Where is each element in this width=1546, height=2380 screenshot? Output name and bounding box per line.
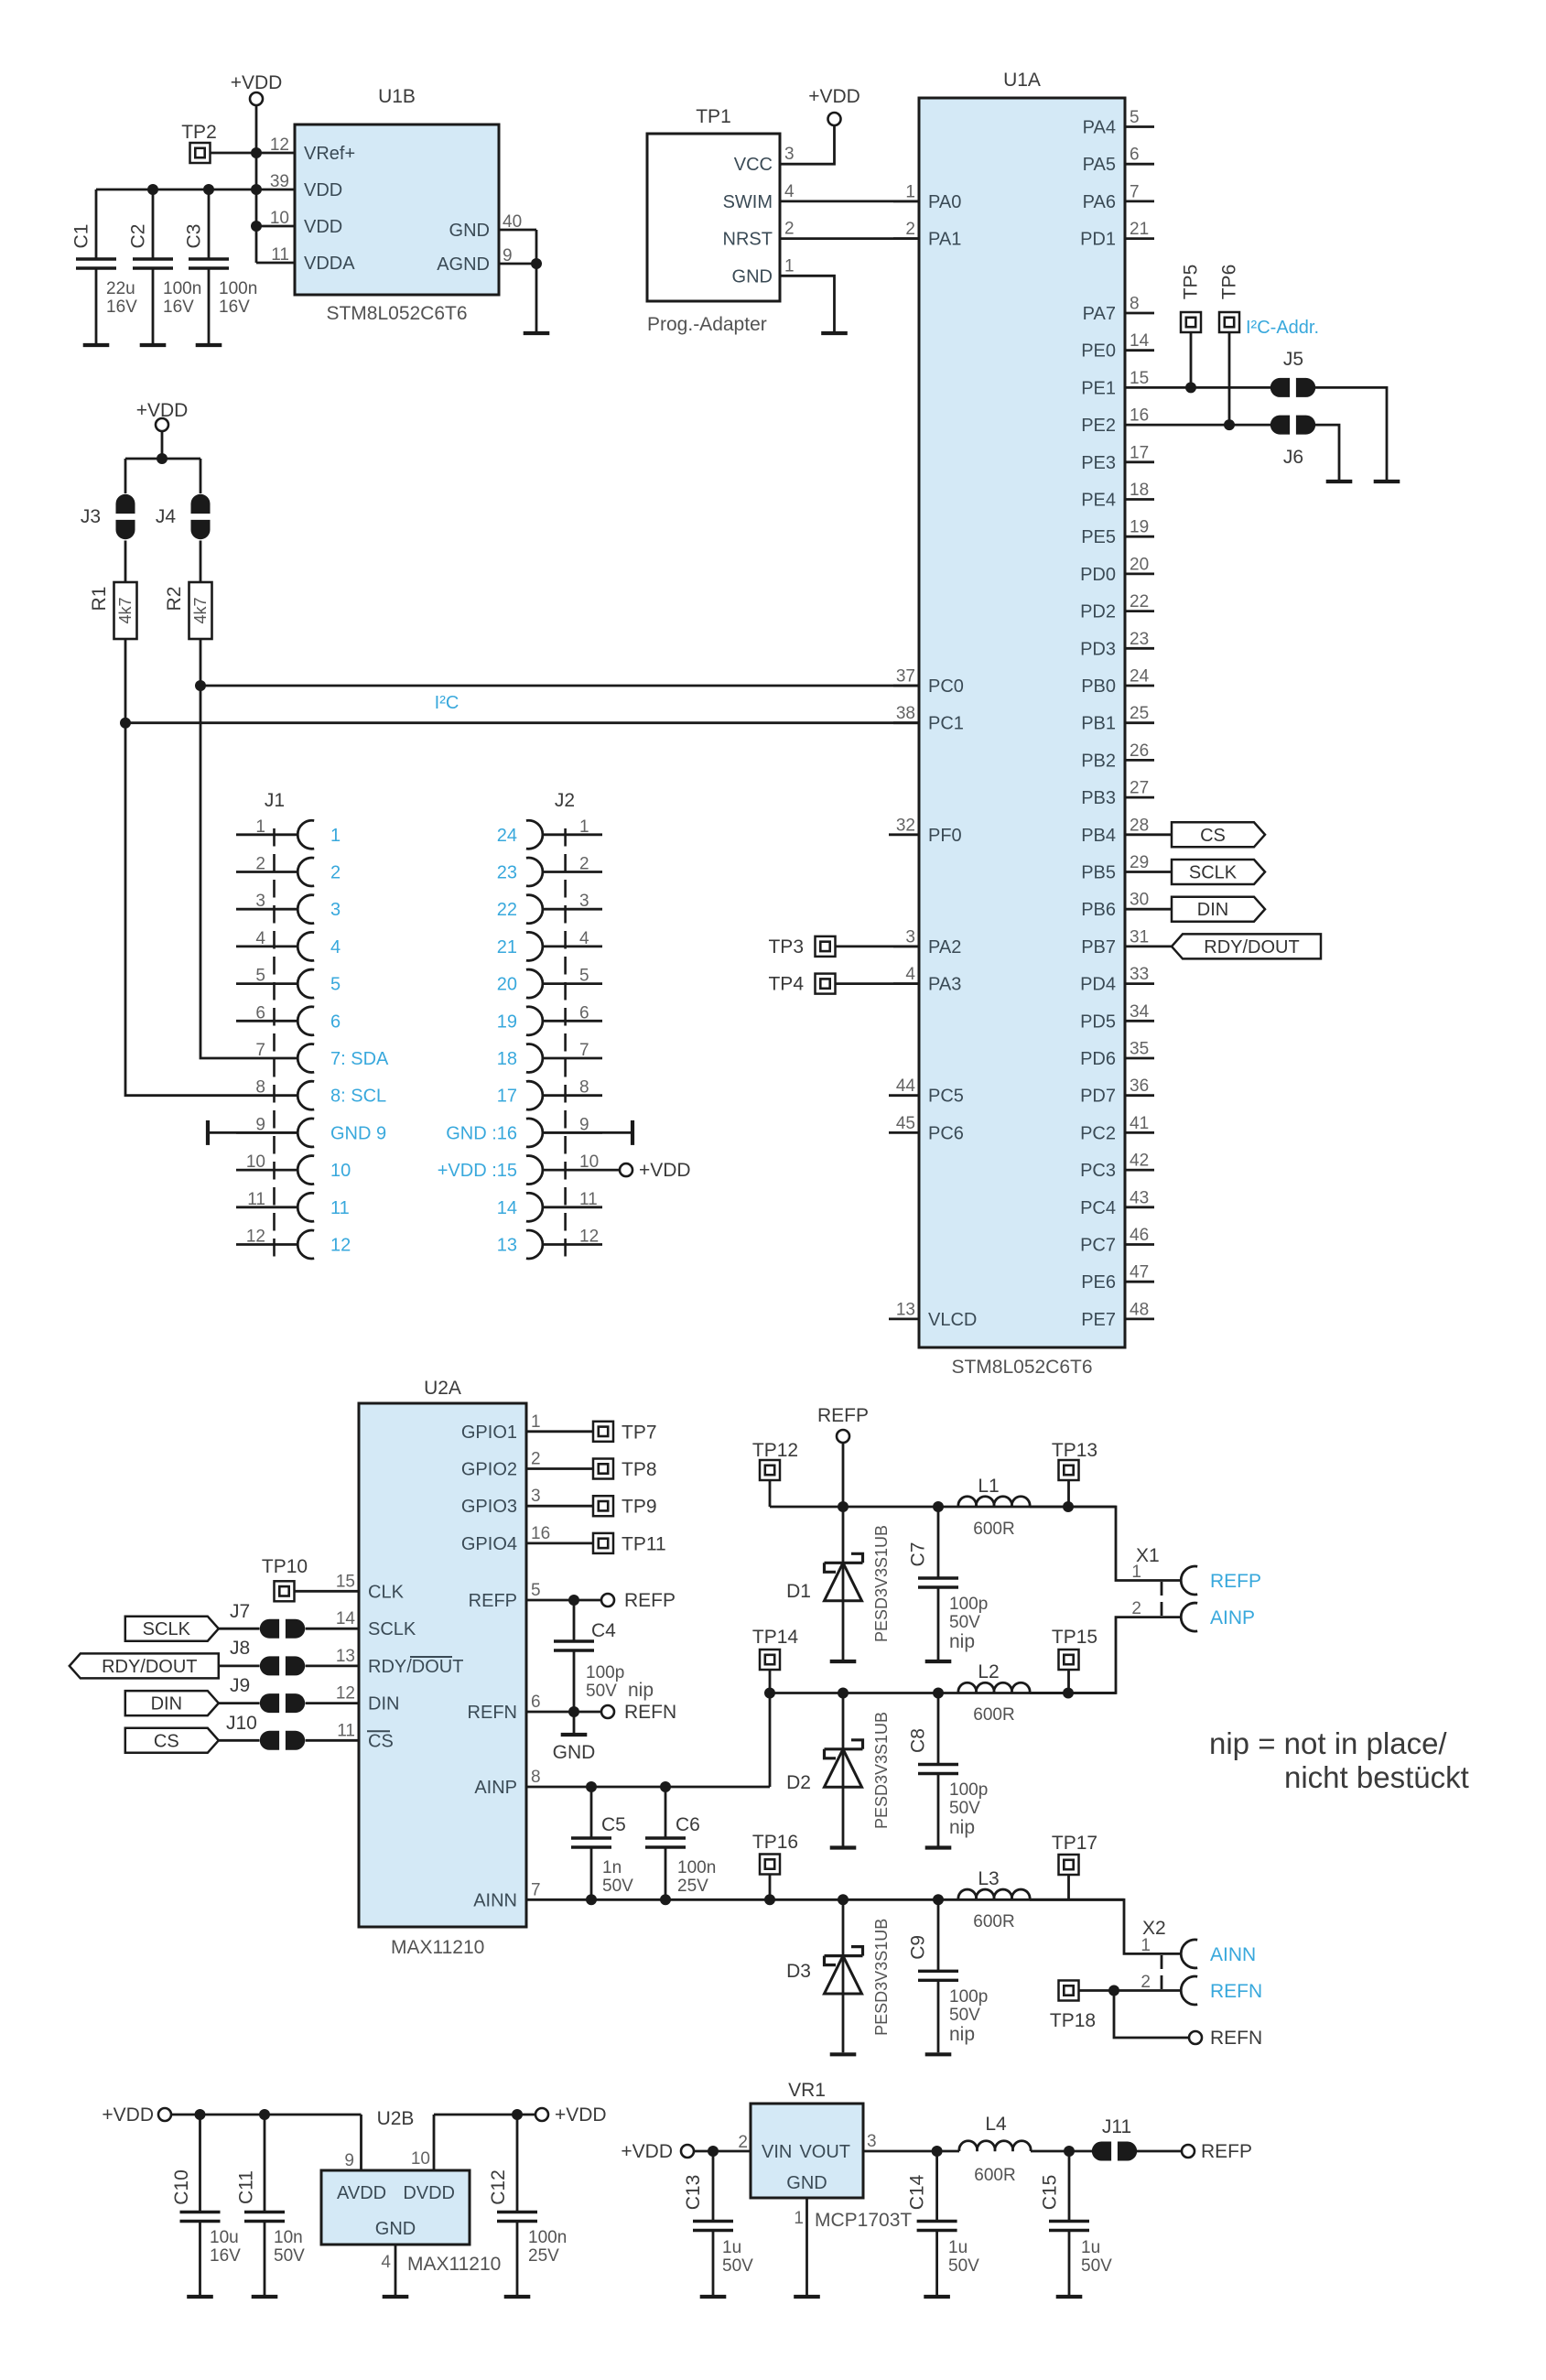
svg-text:19: 19 bbox=[497, 1011, 517, 1032]
svg-text:100n: 100n bbox=[677, 1858, 716, 1877]
ground (D1) bbox=[830, 1660, 857, 1663]
net label I2C bbox=[435, 693, 459, 713]
svg-text:38: 38 bbox=[896, 704, 915, 723]
svg-text:11: 11 bbox=[247, 1190, 265, 1209]
svg-text:8: 8 bbox=[1130, 295, 1140, 314]
svg-text:PE2: PE2 bbox=[1081, 416, 1116, 436]
wire TP1 GND down bbox=[806, 276, 835, 331]
svg-text:10u: 10u bbox=[210, 2228, 239, 2247]
svg-text:50V: 50V bbox=[274, 2246, 305, 2266]
junction dots on U1B supply rail bbox=[147, 147, 262, 232]
J1 pin 8 bbox=[255, 1078, 386, 1110]
svg-text:PB3: PB3 bbox=[1081, 788, 1116, 808]
svg-text:100n: 100n bbox=[163, 279, 201, 298]
inductor L2 600R bbox=[958, 1661, 1030, 1725]
svg-text:GPIO4: GPIO4 bbox=[461, 1534, 517, 1554]
svg-text:5: 5 bbox=[330, 975, 341, 995]
svg-text:J3: J3 bbox=[81, 506, 101, 527]
U2B pin 9 AVDD lead bbox=[344, 2151, 354, 2170]
svg-text:C6: C6 bbox=[676, 1814, 700, 1835]
svg-text:C15: C15 bbox=[1040, 2175, 1061, 2211]
wire TP18 to X2 pin 2 bbox=[1079, 1985, 1182, 1996]
svg-text:J10: J10 bbox=[226, 1713, 257, 1734]
capacitor C8 100p 50V nip bbox=[908, 1693, 989, 1846]
svg-text:REFP: REFP bbox=[1201, 2141, 1252, 2162]
IC U1A STM8L052C6T6 block bbox=[919, 70, 1125, 1378]
U1A pin 6 PA5 bbox=[1083, 146, 1154, 176]
svg-text:AINP: AINP bbox=[1210, 1607, 1255, 1628]
svg-text:REFN: REFN bbox=[468, 1703, 517, 1723]
svg-text:C14: C14 bbox=[907, 2174, 928, 2210]
svg-text:7: SDA: 7: SDA bbox=[330, 1049, 389, 1069]
ground (C11) bbox=[252, 2295, 278, 2299]
svg-text:600R: 600R bbox=[973, 1520, 1014, 1539]
svg-text:AINN: AINN bbox=[473, 1890, 517, 1910]
ground (TP1) bbox=[821, 331, 848, 335]
inductor L4 600R bbox=[959, 2114, 1031, 2185]
jumper J10 bbox=[226, 1713, 305, 1750]
J2 pin 3 bbox=[497, 892, 602, 924]
svg-text:AINP: AINP bbox=[474, 1778, 517, 1798]
svg-text:1n: 1n bbox=[602, 1858, 622, 1877]
svg-text:12: 12 bbox=[246, 1228, 265, 1247]
wire DIN flag to J9 to U2A bbox=[219, 1702, 359, 1704]
svg-text:20: 20 bbox=[497, 975, 517, 995]
svg-text:TP13: TP13 bbox=[1052, 1440, 1097, 1461]
svg-text:PC2: PC2 bbox=[1080, 1123, 1116, 1143]
svg-text:J8: J8 bbox=[230, 1638, 250, 1659]
svg-text:50V: 50V bbox=[722, 2256, 753, 2276]
svg-text:CS: CS bbox=[1200, 826, 1226, 846]
wire L2 to X1 pin 2 bbox=[1030, 1617, 1181, 1693]
svg-text:GND: GND bbox=[449, 221, 490, 241]
J1 pin 7 bbox=[255, 1041, 389, 1073]
svg-text:2: 2 bbox=[1141, 1973, 1151, 1992]
svg-text:35: 35 bbox=[1130, 1040, 1149, 1059]
svg-text:PESD3V3S1UB: PESD3V3S1UB bbox=[872, 1919, 891, 2036]
svg-text:VDD: VDD bbox=[304, 217, 342, 237]
svg-text:4: 4 bbox=[330, 937, 341, 957]
svg-text:TP2: TP2 bbox=[181, 122, 217, 143]
svg-text:3: 3 bbox=[867, 2132, 877, 2151]
svg-text:L1: L1 bbox=[978, 1476, 999, 1497]
jumper J9 bbox=[230, 1675, 305, 1713]
svg-text:36: 36 bbox=[1130, 1076, 1149, 1096]
svg-text:5: 5 bbox=[579, 967, 589, 986]
svg-text:PD5: PD5 bbox=[1080, 1011, 1116, 1032]
U1A pin 24 PB0 bbox=[1081, 667, 1154, 698]
svg-text:1u: 1u bbox=[948, 2238, 968, 2257]
net label REFP (output) bbox=[1182, 2141, 1252, 2162]
svg-text:PD0: PD0 bbox=[1080, 565, 1116, 585]
svg-text:PA5: PA5 bbox=[1083, 155, 1116, 175]
J2 pin 2 bbox=[497, 855, 602, 887]
U2A pin 11 CS bbox=[337, 1721, 394, 1751]
svg-text:nip: nip bbox=[949, 1631, 975, 1652]
net label REFN (output) bbox=[1189, 2028, 1262, 2049]
U1A pin 35 PD6 bbox=[1080, 1040, 1154, 1070]
svg-text:C12: C12 bbox=[488, 2169, 509, 2205]
svg-text:23: 23 bbox=[1130, 630, 1149, 649]
ground (C1) bbox=[83, 343, 110, 347]
svg-text:26: 26 bbox=[1130, 741, 1149, 761]
wire PE2 to jumper J6 bbox=[1154, 332, 1270, 430]
svg-text:STM8L052C6T6: STM8L052C6T6 bbox=[326, 303, 467, 324]
test point TP9 bbox=[593, 1496, 657, 1518]
U1A pin 44 PC5 bbox=[889, 1076, 964, 1107]
svg-text:J7: J7 bbox=[230, 1601, 250, 1622]
svg-text:34: 34 bbox=[1130, 1002, 1150, 1022]
svg-text:PB6: PB6 bbox=[1081, 900, 1116, 920]
svg-text:J2: J2 bbox=[555, 790, 575, 811]
svg-text:7: 7 bbox=[579, 1041, 589, 1060]
svg-text:22u: 22u bbox=[106, 279, 135, 298]
svg-text:4: 4 bbox=[905, 965, 915, 984]
svg-text:DIN: DIN bbox=[368, 1694, 399, 1715]
ground (C2) bbox=[140, 343, 167, 347]
svg-text:4: 4 bbox=[255, 929, 265, 948]
svg-text:41: 41 bbox=[1130, 1114, 1149, 1133]
svg-text:CS: CS bbox=[368, 1731, 394, 1751]
svg-text:I²C: I²C bbox=[435, 693, 459, 713]
ground (U2B) bbox=[383, 2295, 409, 2299]
ground (D3) bbox=[830, 2052, 857, 2056]
U1A pin 19 PE5 bbox=[1081, 518, 1154, 548]
svg-text:C3: C3 bbox=[184, 224, 205, 249]
svg-text:RDY/DOUT: RDY/DOUT bbox=[102, 1657, 197, 1677]
U1A pin 33 PD4 bbox=[1080, 965, 1154, 995]
svg-text:PB1: PB1 bbox=[1081, 714, 1116, 734]
VR1 pin 3 lead / wire VOUT to L4 bbox=[863, 2132, 959, 2157]
svg-text:PE4: PE4 bbox=[1081, 491, 1116, 511]
svg-text:13: 13 bbox=[896, 1300, 915, 1319]
U1A pin 23 PD3 bbox=[1080, 630, 1154, 660]
J1 pin 1 bbox=[236, 817, 341, 849]
capacitor C3 100n 16V bbox=[184, 189, 258, 345]
U2B pin 4 GND lead bbox=[381, 2245, 395, 2295]
net flag CS (to J10) bbox=[125, 1728, 219, 1753]
U1A pin 47 PE6 bbox=[1081, 1263, 1154, 1293]
test point TP3 bbox=[768, 936, 835, 957]
net flag DIN (from PB6) bbox=[1154, 897, 1265, 922]
svg-text:NRST: NRST bbox=[723, 230, 773, 250]
svg-text:16: 16 bbox=[531, 1524, 550, 1543]
U2A pin 8 AINP bbox=[474, 1768, 540, 1798]
U1A pin 26 PB2 bbox=[1081, 741, 1154, 772]
test point TP5 bbox=[1181, 265, 1202, 332]
U1A pin 25 PB1 bbox=[1081, 704, 1154, 734]
svg-text:PA6: PA6 bbox=[1083, 192, 1116, 212]
svg-text:C7: C7 bbox=[908, 1542, 929, 1567]
svg-text:PB7: PB7 bbox=[1081, 937, 1116, 957]
svg-text:14: 14 bbox=[336, 1609, 356, 1628]
capacitor C9 100p 50V nip bbox=[908, 1899, 989, 2052]
svg-text:PA0: PA0 bbox=[928, 192, 961, 212]
test point TP10 bbox=[262, 1556, 308, 1601]
IC U2B MAX11210 block bbox=[321, 2108, 501, 2275]
svg-text:L4: L4 bbox=[985, 2114, 1007, 2135]
svg-text:R2: R2 bbox=[164, 587, 185, 611]
U1A pin 15 PE1 bbox=[1081, 369, 1154, 399]
wire +VDD split to J3/J4 bbox=[125, 431, 200, 493]
ground (C12) bbox=[504, 2295, 531, 2299]
svg-text:8: 8 bbox=[579, 1078, 589, 1098]
ground (C7) bbox=[925, 1660, 952, 1663]
svg-text:PC3: PC3 bbox=[1080, 1161, 1116, 1181]
TP1 pin 2 NRST bbox=[723, 220, 806, 250]
svg-text:C4: C4 bbox=[591, 1620, 616, 1641]
svg-text:11: 11 bbox=[337, 1721, 355, 1740]
svg-text:600R: 600R bbox=[973, 1912, 1014, 1931]
wire GPIO4 to TP11 bbox=[526, 1542, 593, 1545]
wire TP1 VCC to +VDD bbox=[806, 125, 835, 164]
svg-text:PF0: PF0 bbox=[928, 826, 962, 846]
svg-text:PE7: PE7 bbox=[1081, 1310, 1116, 1330]
svg-text:C9: C9 bbox=[908, 1935, 929, 1960]
svg-text:nicht bestückt: nicht bestückt bbox=[1284, 1760, 1469, 1794]
svg-text:PD7: PD7 bbox=[1080, 1087, 1116, 1107]
svg-text:PB5: PB5 bbox=[1081, 863, 1116, 883]
ground (C10) bbox=[187, 2295, 213, 2299]
svg-text:10n: 10n bbox=[274, 2228, 303, 2247]
J2 pin 10 bbox=[438, 1152, 599, 1185]
U1A pin 16 PE2 bbox=[1081, 406, 1154, 437]
J1 pin 10 bbox=[236, 1152, 351, 1185]
svg-text:16: 16 bbox=[1130, 406, 1149, 426]
svg-text:2: 2 bbox=[738, 2133, 748, 2152]
J2 pin 12 bbox=[497, 1228, 602, 1260]
ground (D2) bbox=[830, 1845, 857, 1849]
J2 pin 4 bbox=[497, 929, 602, 961]
svg-text:PESD3V3S1UB: PESD3V3S1UB bbox=[872, 1525, 891, 1642]
U2A pin 7 AINN bbox=[473, 1880, 540, 1910]
svg-text:PA1: PA1 bbox=[928, 230, 961, 250]
J1 body dashed line bbox=[273, 828, 276, 1259]
svg-text:1: 1 bbox=[1141, 1936, 1151, 1955]
test point TP18 bbox=[1050, 1981, 1096, 2032]
svg-text:TP17: TP17 bbox=[1052, 1833, 1097, 1854]
ground (U1B) bbox=[524, 331, 550, 335]
svg-text:RDY/DOUT: RDY/DOUT bbox=[1204, 937, 1299, 957]
svg-text:nip: nip bbox=[628, 1680, 654, 1701]
U2A pin 1 GPIO1 bbox=[461, 1412, 541, 1443]
U1A pin 2 PA1 bbox=[893, 220, 961, 250]
svg-text:VDD: VDD bbox=[304, 180, 342, 200]
svg-text:45: 45 bbox=[896, 1114, 915, 1133]
U1B pin 39 VDD bbox=[256, 172, 342, 200]
U1A pin 21 PD1 bbox=[1080, 220, 1154, 250]
svg-text:PESD3V3S1UB: PESD3V3S1UB bbox=[872, 1712, 891, 1829]
svg-text:7: 7 bbox=[255, 1041, 265, 1060]
wire SCL bus to U1A PC1 bbox=[120, 718, 919, 729]
svg-text:5: 5 bbox=[531, 1581, 541, 1600]
wire TP4 to PA3 bbox=[836, 982, 920, 985]
svg-text:25: 25 bbox=[1130, 704, 1149, 723]
net flag DIN (to J9) bbox=[125, 1691, 219, 1715]
svg-text:46: 46 bbox=[1130, 1226, 1149, 1245]
svg-text:4: 4 bbox=[579, 929, 589, 948]
jumper J3 bbox=[81, 494, 135, 539]
U1B pin 11 VDDA bbox=[256, 245, 355, 274]
ground (C3) bbox=[196, 343, 222, 347]
svg-text:16V: 16V bbox=[163, 297, 194, 317]
svg-text:50V: 50V bbox=[602, 1877, 633, 1896]
J2 pin 6 bbox=[497, 1003, 602, 1035]
svg-text:14: 14 bbox=[497, 1198, 517, 1218]
TP1 pin 3 VCC bbox=[734, 145, 806, 175]
U2A pin 16 GPIO4 bbox=[461, 1524, 550, 1554]
capacitor C2 100n 16V bbox=[128, 189, 202, 345]
svg-text:6: 6 bbox=[255, 1003, 265, 1022]
net label I2C-Addr. bbox=[1246, 318, 1319, 338]
svg-text:18: 18 bbox=[1130, 481, 1149, 500]
svg-text:600R: 600R bbox=[974, 2166, 1015, 2185]
svg-text:6: 6 bbox=[531, 1693, 541, 1712]
svg-text:12: 12 bbox=[330, 1236, 351, 1256]
net label AINN (X2-1) bbox=[1210, 1944, 1256, 1965]
svg-text:VRef+: VRef+ bbox=[304, 144, 355, 164]
svg-text:PA2: PA2 bbox=[928, 937, 961, 957]
resistor R1 4k7 bbox=[89, 582, 137, 639]
svg-text:4: 4 bbox=[381, 2253, 391, 2272]
svg-text:15: 15 bbox=[336, 1572, 355, 1591]
U2A pin 15 CLK bbox=[336, 1572, 405, 1602]
wire +VDD to VIN bbox=[694, 2146, 751, 2157]
diode D2 PESD3V3S1UB bbox=[786, 1693, 891, 1846]
svg-text:+VDD: +VDD bbox=[639, 1160, 691, 1181]
svg-text:31: 31 bbox=[1130, 927, 1149, 947]
wire J5 to ground bbox=[1315, 387, 1387, 480]
svg-text:2: 2 bbox=[905, 220, 915, 239]
svg-text:9: 9 bbox=[503, 246, 513, 265]
svg-text:D1: D1 bbox=[786, 1581, 811, 1602]
capacitor C12 100n 25V bbox=[488, 2115, 567, 2295]
U1A pin 4 PA3 bbox=[893, 965, 961, 995]
wire SDA bus to U1A PC0 bbox=[195, 680, 919, 691]
U2A pin 6 REFN bbox=[468, 1693, 541, 1723]
U1A pin 34 PD5 bbox=[1080, 1002, 1154, 1033]
U2A pin 12 DIN bbox=[336, 1684, 400, 1715]
U1A pin 31 PB7 bbox=[1081, 927, 1154, 957]
ground (C14) bbox=[924, 2295, 950, 2299]
test point TP6 bbox=[1219, 265, 1240, 332]
svg-text:TP18: TP18 bbox=[1050, 2010, 1096, 2031]
U2B pin 10 DVDD lead bbox=[411, 2109, 535, 2170]
svg-text:2: 2 bbox=[255, 855, 265, 874]
power +VDD (VR1 input) bbox=[621, 2141, 694, 2162]
ground (C9) bbox=[925, 2052, 952, 2056]
svg-text:PE1: PE1 bbox=[1081, 378, 1116, 398]
svg-text:+VDD: +VDD bbox=[808, 86, 860, 107]
svg-text:PD4: PD4 bbox=[1080, 975, 1116, 995]
svg-text:TP6: TP6 bbox=[1219, 265, 1240, 300]
svg-text:22: 22 bbox=[1130, 592, 1149, 611]
svg-text:1u: 1u bbox=[722, 2238, 741, 2257]
svg-text:3: 3 bbox=[255, 892, 265, 911]
svg-text:12: 12 bbox=[270, 135, 289, 155]
svg-text:GND :16: GND :16 bbox=[446, 1123, 517, 1143]
X2 pin 2 contact bbox=[1141, 1973, 1197, 2005]
svg-text:2: 2 bbox=[1131, 1599, 1141, 1618]
svg-text:GND: GND bbox=[732, 266, 773, 287]
ground (J2 pin 9) bbox=[543, 1120, 632, 1145]
U1A pin 5 PA4 bbox=[1083, 108, 1154, 138]
capacitor C11 10n 50V bbox=[236, 2115, 306, 2295]
svg-text:33: 33 bbox=[1130, 965, 1149, 984]
U1B pin 12 VRef+ bbox=[256, 135, 355, 164]
J2 pin 5 bbox=[497, 967, 602, 999]
svg-text:23: 23 bbox=[497, 863, 517, 883]
U2A pin 13 RDY/DOUT bbox=[336, 1647, 464, 1677]
svg-text:42: 42 bbox=[1130, 1152, 1149, 1171]
svg-text:U1A: U1A bbox=[1003, 70, 1041, 91]
svg-text:47: 47 bbox=[1130, 1263, 1149, 1282]
U1A pin 27 PB3 bbox=[1081, 779, 1154, 809]
svg-text:GND 9: GND 9 bbox=[330, 1123, 386, 1143]
svg-text:VOUT: VOUT bbox=[799, 2142, 850, 2162]
J1 pin 3 bbox=[236, 892, 341, 923]
svg-text:VR1: VR1 bbox=[788, 2080, 826, 2101]
U1A pin 7 PA6 bbox=[1083, 182, 1154, 212]
J1 pin 6 bbox=[236, 1003, 341, 1034]
wire REFN to ground bbox=[573, 1712, 576, 1733]
svg-text:TP1: TP1 bbox=[696, 106, 731, 127]
net label REFP (input) bbox=[817, 1405, 869, 1443]
U1A pin 43 PC4 bbox=[1080, 1188, 1154, 1218]
connector X2 bbox=[1141, 1918, 1165, 1989]
U1A pin 36 PD7 bbox=[1080, 1076, 1154, 1107]
power +VDD (J2 pin 10) bbox=[543, 1160, 691, 1181]
svg-text:17: 17 bbox=[1130, 443, 1149, 462]
svg-text:12: 12 bbox=[336, 1684, 355, 1704]
svg-text:PE6: PE6 bbox=[1081, 1272, 1116, 1293]
svg-text:600R: 600R bbox=[973, 1705, 1014, 1725]
IC U1B STM8L052C6T6 block bbox=[295, 86, 499, 324]
svg-text:L3: L3 bbox=[978, 1868, 999, 1889]
svg-text:C5: C5 bbox=[601, 1814, 626, 1835]
svg-text:13: 13 bbox=[336, 1647, 355, 1666]
J2 body dashed line bbox=[564, 828, 567, 1259]
svg-text:3: 3 bbox=[330, 900, 341, 920]
svg-text:TP3: TP3 bbox=[768, 936, 804, 957]
svg-text:STM8L052C6T6: STM8L052C6T6 bbox=[951, 1357, 1092, 1378]
svg-text:+VDD: +VDD bbox=[231, 72, 283, 93]
U1A pin 37 PC0 bbox=[893, 667, 964, 698]
power +VDD (U2B left) bbox=[102, 2104, 171, 2126]
U1A pin 29 PB5 bbox=[1081, 853, 1154, 883]
J1 pin 12 bbox=[236, 1228, 351, 1260]
U1B pin 10 VDD bbox=[256, 209, 342, 237]
U2A pin 2 GPIO2 bbox=[461, 1450, 541, 1480]
svg-text:16V: 16V bbox=[219, 297, 250, 317]
svg-text:AINN: AINN bbox=[1210, 1944, 1256, 1965]
wire AINP to filter node bbox=[526, 1693, 770, 1793]
power +VDD (U2B right) bbox=[535, 2104, 607, 2126]
svg-text:4: 4 bbox=[784, 182, 795, 201]
svg-text:17: 17 bbox=[497, 1087, 517, 1107]
svg-text:AGND: AGND bbox=[437, 254, 490, 275]
jumper J11 bbox=[1092, 2116, 1137, 2161]
svg-text:48: 48 bbox=[1130, 1300, 1149, 1319]
capacitor C13 1u 50V bbox=[683, 2151, 753, 2295]
svg-text:CS: CS bbox=[154, 1731, 179, 1751]
resistor R2 4k7 bbox=[164, 582, 212, 639]
svg-text:L2: L2 bbox=[978, 1661, 999, 1682]
test point TP17 bbox=[1052, 1833, 1097, 1899]
svg-text:VIN: VIN bbox=[762, 2142, 792, 2162]
wire L4 to J11 bbox=[1031, 2146, 1092, 2157]
svg-text:1: 1 bbox=[255, 817, 265, 837]
